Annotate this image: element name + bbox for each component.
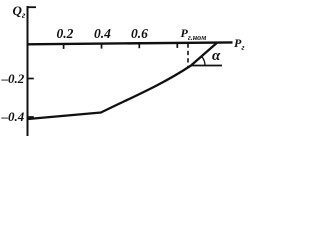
tick label 0.2 <box>57 27 74 41</box>
x tick 0.2 <box>63 44 65 49</box>
angle label alpha <box>212 49 220 64</box>
x tick 0.8 unlabeled <box>176 43 178 48</box>
label P_r.nom (rated power) <box>181 27 207 39</box>
y tick -0.2 <box>28 78 34 80</box>
x tick 0.6 <box>138 43 140 48</box>
label Q_r (y-axis quantity) <box>13 4 26 19</box>
y-axis top serif <box>27 6 36 8</box>
x-axis <box>27 42 233 44</box>
dashed guide line at P nominal <box>187 44 189 68</box>
label P_r (x-axis quantity) <box>234 37 244 49</box>
y-axis <box>27 6 29 136</box>
x tick 0.4 <box>101 44 103 49</box>
capability curve <box>28 43 217 119</box>
angle arc <box>202 56 205 65</box>
tick label -0.4 <box>2 110 25 123</box>
tick label 0.4 <box>94 27 111 41</box>
angle horizontal leg <box>191 65 222 67</box>
tick label 0.6 <box>131 27 148 41</box>
tick label -0.2 <box>2 72 25 85</box>
y tick -0.4 <box>28 116 34 118</box>
